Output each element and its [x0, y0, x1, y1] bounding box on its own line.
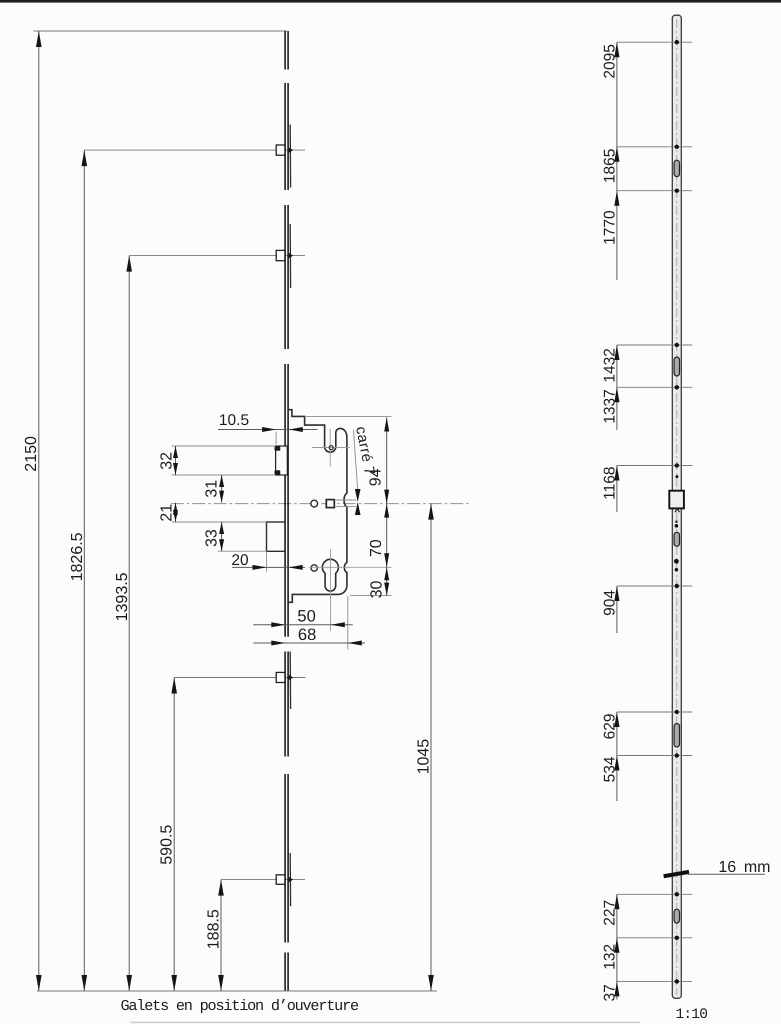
dimension 50 — [253, 608, 352, 628]
ref line galet 3 (590.5) — [174, 677, 305, 679]
right view dimension line segment F — [616, 894, 618, 999]
ref line 132 — [617, 936, 692, 940]
rivet dots below gearbox — [675, 521, 679, 528]
svg-text:30: 30 — [369, 581, 386, 599]
screw slot B — [674, 357, 679, 376]
extension line case bottom (30/68) — [350, 595, 392, 597]
right view dimension line segment D — [616, 586, 618, 633]
dimension 32 — [158, 446, 178, 475]
rail faceplate segment 2 — [285, 83, 288, 190]
dimension 33 — [203, 522, 224, 551]
svg-text:32: 32 — [158, 452, 175, 470]
arrow 904 — [601, 586, 619, 616]
rivet dot — [675, 475, 678, 478]
ref line 227 — [617, 892, 692, 896]
rivet dots — [674, 559, 679, 572]
arrow 132 — [601, 938, 619, 970]
svg-text:1168: 1168 — [601, 467, 618, 500]
screw slot C — [674, 532, 679, 546]
rail faceplate segment 7 (bottom) — [285, 953, 288, 991]
extension lines 21/33 — [172, 522, 267, 551]
screw slot E — [674, 909, 679, 923]
extension line deadbolt (20) — [266, 552, 268, 572]
deadbolt — [267, 522, 285, 551]
dimension 1826.5 — [69, 150, 87, 991]
dimension 94 — [367, 418, 389, 504]
arrow 1168 — [601, 466, 619, 500]
svg-text:16 mm: 16 mm — [718, 859, 770, 876]
rail faceplate segment 4 (lock zone) — [285, 364, 288, 637]
dimension 70 — [368, 504, 389, 568]
ref line 1337 — [617, 385, 692, 389]
arrow 2095 — [601, 42, 619, 78]
svg-text:904: 904 — [601, 590, 618, 616]
svg-text:68: 68 — [298, 626, 316, 644]
ref line 1168 — [617, 463, 692, 467]
svg-text:2150: 2150 — [23, 436, 40, 472]
svg-text:188.5: 188.5 — [206, 909, 223, 949]
svg-text:21: 21 — [158, 504, 175, 522]
bottom caption — [121, 997, 360, 1015]
lock case outline — [288, 410, 347, 603]
svg-text:534: 534 — [601, 756, 618, 782]
screw slot A — [674, 160, 679, 176]
rail faceplate segment 6 — [285, 774, 288, 943]
svg-text:50: 50 — [297, 608, 315, 626]
arrow 629 — [601, 712, 619, 739]
svg-text:1826.5: 1826.5 — [69, 532, 86, 581]
svg-text:1045: 1045 — [416, 739, 433, 775]
cylinder horizontal centerline / 70-30 reference — [309, 566, 392, 568]
ref line 1432 — [617, 343, 692, 347]
euro cylinder keyhole — [322, 559, 338, 591]
right view dimension line segment B — [616, 345, 618, 430]
svg-text:37: 37 — [601, 984, 618, 1001]
ref line galet 1 (1826.5) — [84, 149, 305, 151]
svg-text:1865: 1865 — [601, 149, 618, 183]
svg-text:20: 20 — [231, 552, 249, 569]
rail faceplate segment 3 — [285, 205, 288, 349]
galet G2 (roller) — [276, 250, 293, 260]
svg-text:1393.5: 1393.5 — [114, 572, 131, 621]
rail bar centerline — [676, 19, 678, 995]
dimension 30 — [369, 567, 390, 598]
cremone backplate strip behind galet 3 — [289, 652, 291, 710]
svg-text:590.5: 590.5 — [159, 825, 176, 865]
ref line 37 — [617, 979, 692, 983]
dimension 1393.5 — [114, 256, 132, 991]
cremone backplate strip behind galet 1 — [289, 125, 291, 188]
svg-text:10.5: 10.5 — [219, 412, 249, 429]
rail faceplate segment 5 — [285, 652, 288, 757]
svg-text:1:10: 1:10 — [676, 1007, 708, 1023]
ref line 534 — [617, 753, 692, 757]
right view dimension line segment A — [616, 42, 618, 280]
arrow 1865 — [601, 147, 619, 183]
bottom datum baseline — [37, 990, 437, 992]
arrow 1337 — [601, 387, 619, 423]
cylinder vertical centerline — [330, 549, 332, 631]
ref line 1865 — [617, 145, 692, 149]
extension line case back (68) — [347, 596, 349, 649]
rail bar body (edge view) — [672, 15, 681, 998]
upper slot pivot circle — [329, 446, 333, 450]
dimension 590.5 — [159, 678, 177, 992]
follower hub edge lines — [335, 500, 357, 507]
arrow 1770 — [601, 191, 619, 245]
fixing hole upper — [311, 500, 318, 507]
page top edge line — [0, 0, 781, 3]
ref line galet 4 (188.5) — [221, 879, 305, 881]
right view dimension line segment C — [616, 466, 618, 513]
rail faceplate (left view) segment 1 — [285, 31, 288, 70]
spindle square (carre) — [326, 500, 334, 508]
scale note 1:10 — [676, 1007, 708, 1023]
svg-text:227: 227 — [601, 900, 618, 926]
galet G1 (roller) — [276, 145, 293, 155]
ref line 904 — [617, 584, 692, 588]
fixing hole lower — [311, 565, 317, 571]
latch roller on faceplate (32 item) — [275, 446, 288, 475]
right view dimension line segment E — [616, 712, 618, 801]
ref line galet 2 (1393.5) — [129, 255, 305, 257]
galet G4 (roller) — [276, 875, 293, 885]
dimension 1045 — [416, 504, 434, 991]
ref line 629 — [617, 710, 692, 714]
extension lines 32/31 — [172, 446, 276, 475]
svg-text:1770: 1770 — [601, 210, 618, 245]
ref line 1770 — [617, 189, 692, 193]
extension line case top (94) — [306, 415, 392, 417]
ref line 2095 — [617, 40, 692, 44]
ref line top of rail (2150 datum) — [34, 30, 288, 32]
svg-text:31: 31 — [203, 480, 220, 498]
cremone backplate strip behind galet 4 — [289, 853, 291, 906]
svg-text:70: 70 — [368, 539, 385, 557]
svg-text:132: 132 — [601, 944, 618, 970]
page bottom edge smudge — [130, 1022, 640, 1024]
screw slot D — [674, 724, 679, 748]
main horizontal centerline (spindle axis) — [171, 503, 471, 505]
dimension 21 — [158, 503, 178, 522]
gearbox housing (edge view) — [669, 491, 684, 513]
svg-text:629: 629 — [601, 714, 618, 740]
svg-text:Galets en position d’ouverture: Galets en position d’ouverture — [121, 997, 360, 1015]
dimension 68 — [253, 626, 365, 646]
dimension 10.5 — [218, 412, 317, 432]
cremone backplate strip behind galet 2 — [289, 224, 291, 288]
upper slot vertical centerline — [329, 429, 331, 467]
dimension 188.5 — [206, 880, 224, 991]
svg-text:2095: 2095 — [601, 44, 618, 78]
svg-text:33: 33 — [203, 529, 220, 547]
dimension 20 — [231, 552, 305, 570]
galet G3 (roller) — [276, 672, 293, 682]
arrow 227 — [601, 894, 619, 925]
upper slot horizontal centerline — [312, 447, 350, 449]
arrow 37 — [601, 981, 619, 1001]
16 mm thickness mark — [663, 859, 770, 878]
extension line latch roller (10.5) — [275, 432, 277, 445]
dimension 31 — [203, 475, 224, 503]
svg-text:1432: 1432 — [601, 348, 618, 382]
arrow 534 — [601, 756, 619, 783]
dimension 2150 — [23, 31, 41, 991]
arrow 1432 — [601, 345, 619, 383]
svg-text:1337: 1337 — [601, 389, 618, 423]
leader carre 7 — [352, 425, 377, 515]
